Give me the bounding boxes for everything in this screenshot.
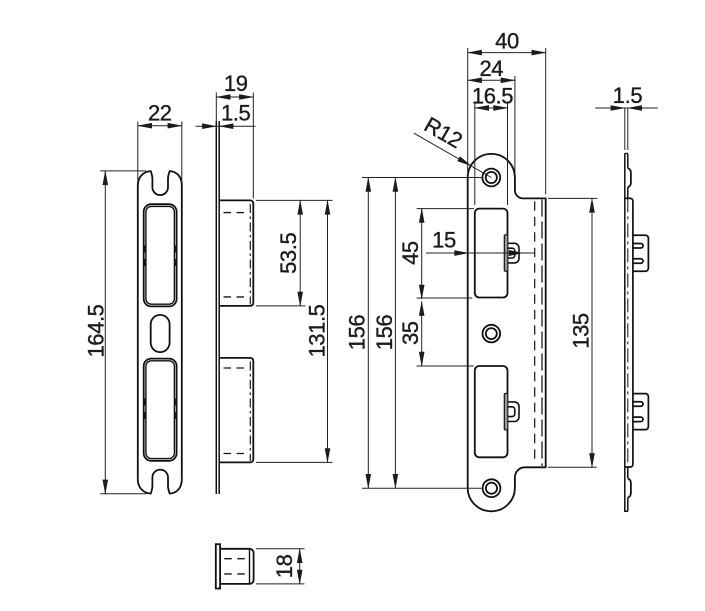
svg-text:45: 45 (398, 241, 423, 265)
dim 156 ext bottom (hole center) (362, 487, 483, 489)
dim 156 arrows (366, 177, 372, 192)
middle screw hole inner (486, 328, 497, 339)
dim 164.5 extension lines (100, 170, 146, 172)
dim 1.5 arrows (outside) (202, 123, 217, 129)
middle oval hole (151, 315, 170, 352)
main plate outline (468, 154, 546, 511)
folded box body (625, 198, 633, 467)
dim 40 ext lines (467, 48, 469, 172)
top countersink boss (628, 168, 631, 188)
faceplate right edge (181, 186, 183, 480)
lower slot hidden edge right (174, 399, 176, 420)
faceplate edge line front (215, 121, 217, 494)
dim 53.5 extension bottom (256, 305, 306, 307)
bottom countersink boss (628, 478, 631, 497)
dim 19 line (216, 96, 253, 98)
dim 35 line (421, 302, 423, 367)
dim 19 arrows (216, 94, 231, 100)
dim 15 line (426, 252, 535, 254)
dim 1.5 line (196, 125, 256, 127)
faceplate outline top end with U-notch (138, 171, 182, 195)
lower keeper bracket (633, 394, 649, 430)
faceplate back edge line (visible parts) (627, 154, 629, 512)
svg-text:35: 35 (398, 321, 423, 345)
dim 16.5 ext lines (474, 104, 476, 206)
dim 53.5 arrows (297, 200, 303, 215)
dim 156 ext top (hole center) (362, 177, 482, 179)
dim 22 arrows (137, 123, 152, 129)
dim 24 arrows (467, 78, 482, 84)
upper box hidden top edge (224, 212, 248, 214)
dim 156 line 1 (367, 178, 369, 489)
bend hidden line 2 (541, 200, 543, 467)
top screw hole outer (482, 169, 500, 187)
dim 19 left extension (215, 93, 217, 122)
dust box section (220, 549, 254, 584)
dim 45 arrows (419, 208, 425, 223)
lower latch slot inner chamfer (146, 361, 175, 459)
dim 18 line (299, 549, 301, 584)
upper box inner face hidden line (249, 204, 251, 305)
lower bracket finger 1 (633, 402, 643, 407)
dim 164.5 arrows (103, 170, 109, 185)
dim 53.5 extension top (256, 199, 333, 201)
middle screw hole outer (483, 325, 501, 343)
dim 35 ext bottom (417, 365, 474, 367)
lower latch slot outer (144, 359, 177, 461)
lower latch keeper detail (504, 394, 519, 430)
lower box inner face hidden line (249, 362, 251, 462)
upper latch aperture (475, 209, 508, 298)
box inner face line (249, 549, 251, 584)
dim 16.5 arrows (474, 105, 489, 111)
lower bracket finger 2 (633, 417, 643, 422)
box hidden wall 2 (224, 573, 249, 575)
dim 15 arrows (both rightward) (454, 250, 469, 256)
dim 45/35 junction ext (417, 297, 473, 299)
svg-text:53.5: 53.5 (276, 233, 301, 274)
upper latch keeper detail (504, 235, 519, 271)
dim 22 line (138, 125, 182, 127)
upper keeper bracket (633, 235, 649, 271)
dim 156 line 2 (394, 178, 396, 489)
dim 164.5 line (104, 171, 106, 494)
dim 135 line (591, 198, 593, 467)
lower dust box (219, 358, 253, 463)
R12 leader line (414, 133, 491, 177)
faceplate outline bottom end with U-notch (138, 470, 182, 494)
dim 16.5 line (475, 107, 508, 109)
svg-text:135: 135 (569, 313, 594, 349)
svg-text:40: 40 (495, 29, 519, 54)
svg-text:24: 24 (479, 56, 503, 81)
lower box hidden top edge (224, 367, 248, 369)
upper latch slot outer (144, 204, 177, 306)
dim 135 ext lines (548, 197, 597, 199)
upper box hidden bottom edge (224, 296, 248, 298)
dim 18 ext lines (256, 548, 305, 550)
svg-text:15: 15 (432, 228, 456, 253)
svg-text:19: 19 (224, 71, 248, 96)
upper bracket finger 1 (633, 244, 643, 249)
dim 24 line (468, 79, 515, 81)
svg-text:1.5: 1.5 (221, 101, 251, 126)
R12 leader arrow (457, 156, 473, 168)
svg-text:1.5: 1.5 (613, 83, 643, 108)
upper slot hidden edge left (144, 246, 146, 267)
top screw hole inner (486, 172, 497, 183)
dim 35 arrows (419, 301, 425, 316)
faceplate left edge (137, 186, 139, 480)
dim 40 arrows (467, 50, 482, 56)
upper latch keeper grey strip (505, 236, 508, 271)
dim 24 ext line right (514, 76, 516, 174)
lower box hidden bottom edge (224, 453, 248, 455)
dim 1.5 arrows (outside) (611, 105, 626, 111)
dim 45 ext top (417, 208, 474, 210)
faceplate edge line back (218, 121, 220, 494)
dim 131.5 extension bottom (256, 461, 333, 463)
lower latch keeper grey strip (505, 394, 508, 429)
lower slot hidden edge left (144, 399, 146, 420)
svg-text:131.5: 131.5 (305, 304, 330, 357)
dim 131.5 arrows (325, 200, 331, 215)
bend hidden line 1 (534, 201, 536, 465)
dim 22 extension lines (137, 122, 139, 184)
upper slot hidden edge right (174, 246, 176, 267)
dim 131.5 line (327, 200, 329, 462)
bottom screw hole outer (483, 479, 501, 497)
dim 45 line (421, 209, 423, 299)
svg-text:22: 22 (148, 101, 172, 126)
svg-text:156: 156 (372, 315, 397, 351)
bottom screw hole inner (486, 483, 497, 494)
upper bracket finger 2 (633, 259, 643, 264)
svg-text:156: 156 (345, 315, 370, 351)
svg-text:164.5: 164.5 (83, 304, 108, 357)
dim 40 line (468, 52, 546, 54)
lower latch aperture (475, 366, 508, 457)
svg-text:16.5: 16.5 (472, 84, 513, 109)
dim 1.5 line (595, 107, 658, 109)
faceplate bar (216, 544, 220, 588)
dim 19 right extension (252, 93, 254, 199)
svg-text:18: 18 (272, 554, 297, 578)
box hidden wall 1 (224, 558, 249, 560)
dim 18 arrows (297, 548, 303, 563)
upper latch slot inner chamfer (146, 206, 175, 304)
dim 1.5 ext lines (624, 109, 626, 151)
dim 135 arrows (589, 198, 595, 213)
upper dust box (219, 200, 253, 306)
dim 53.5 line (299, 200, 301, 306)
faceplate back hidden line (627, 198, 629, 467)
faceplate front edge line (625, 154, 628, 512)
